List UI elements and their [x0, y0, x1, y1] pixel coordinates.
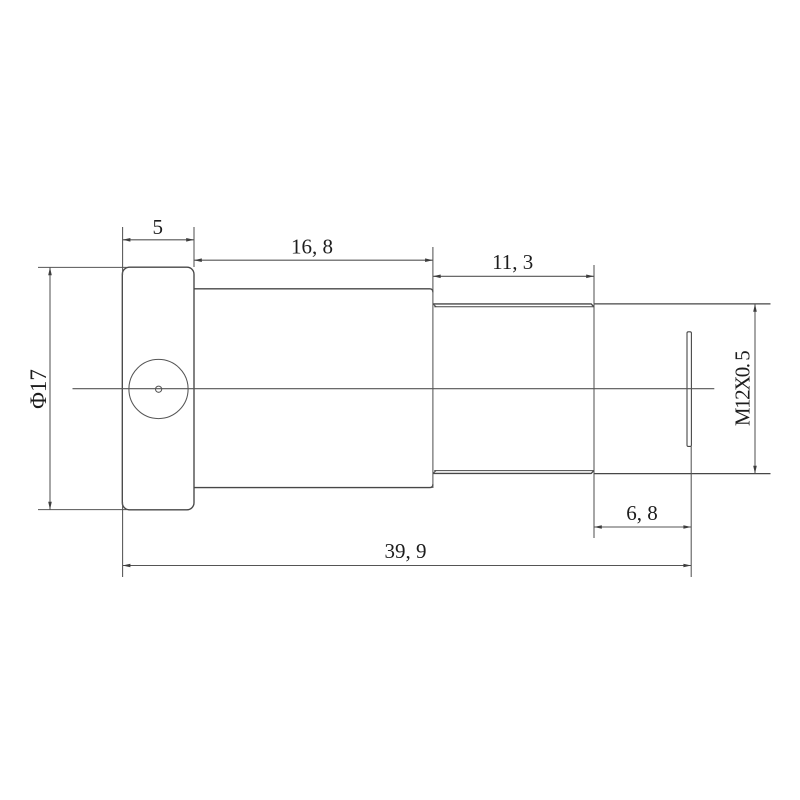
dim line 6.8 [594, 526, 691, 528]
extension line x433 step face [432, 247, 434, 488]
horizontal center line [73, 388, 715, 390]
thread minor diameter bottom line [434, 470, 594, 472]
svg-text:11, 3: 11, 3 [492, 250, 533, 274]
svg-text:5: 5 [152, 215, 163, 239]
extension line x691 right end [690, 447, 692, 578]
front barrel top edge with extension [594, 303, 771, 305]
arrow 11.3 right [586, 275, 594, 279]
flange hole center dot circle [156, 386, 162, 392]
svg-text:16, 8: 16, 8 [291, 235, 333, 259]
extension line x594 thread face [593, 265, 595, 538]
svg-text:M12X0. 5: M12X0. 5 [731, 351, 755, 426]
arrow M12 bottom [753, 466, 757, 474]
extension line x194 above flange [193, 227, 195, 267]
dim line 39.9 [123, 565, 692, 567]
arrow 5 right [186, 238, 194, 242]
dim line 11.3 [433, 275, 594, 277]
arrow 16.8 left [194, 258, 202, 262]
thread start chamfer bottom [433, 470, 436, 473]
thread minor diameter top line [434, 306, 594, 308]
body section top edge [194, 289, 433, 292]
front barrel bottom edge with extension [594, 473, 771, 475]
dim line 16.8 [194, 259, 433, 261]
extension line phi17 top [38, 266, 127, 268]
arrow 16.8 right [425, 258, 433, 262]
dim line M12X0.5 [754, 304, 756, 474]
svg-text:Φ17: Φ17 [26, 369, 51, 409]
svg-text:6, 8: 6, 8 [626, 501, 658, 525]
lens element slot [687, 332, 691, 447]
arrow phi17 bottom [48, 502, 52, 510]
arrow 39.9 right [683, 564, 691, 568]
arrow 11.3 left [433, 275, 441, 279]
thread major diameter bottom line [433, 470, 594, 473]
flange outline [122, 267, 194, 510]
body section bottom edge [194, 484, 433, 487]
arrow 39.9 left [123, 564, 131, 568]
extension line left of flange x122 [122, 227, 124, 577]
arrow M12 top [753, 304, 757, 312]
arrow phi17 top [48, 267, 52, 275]
dim line 5 [123, 239, 194, 241]
arrow 5 left [123, 238, 131, 242]
dim line phi17 [49, 267, 51, 509]
flange hole circle [129, 359, 188, 418]
arrow 6.8 left [594, 525, 602, 529]
arrow 6.8 right [683, 525, 691, 529]
extension line phi17 bottom [38, 509, 127, 511]
thread start chamfer top [433, 304, 436, 307]
svg-text:39, 9: 39, 9 [385, 539, 427, 563]
thread major diameter top line [433, 304, 594, 307]
